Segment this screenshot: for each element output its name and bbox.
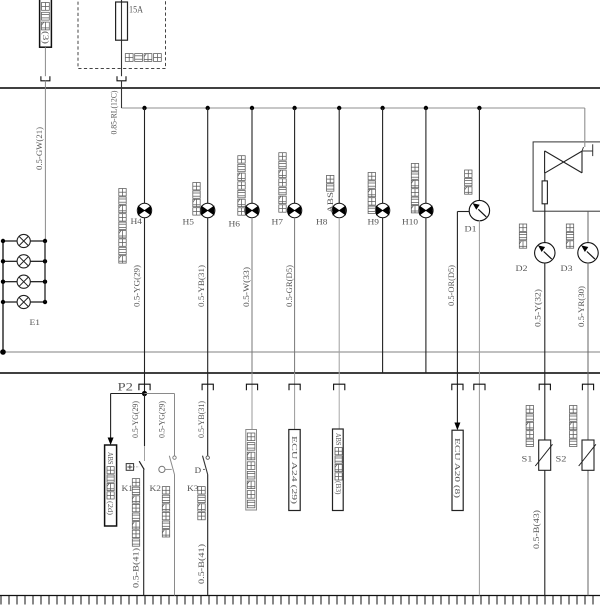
wire: bus into stabilizer box bbox=[582, 108, 585, 151]
svg-text:0.5-GW(21): 0.5-GW(21) bbox=[35, 127, 44, 170]
wire: D1 bottom to terminal strip bbox=[478, 221, 480, 596]
label S2 chinese name (water temp sensor) bbox=[570, 406, 577, 447]
svg-text:ABS: ABS bbox=[334, 433, 342, 446]
wire: K3 to terminal strip bbox=[207, 475, 209, 596]
ABS drive module box (B3) bbox=[333, 429, 344, 511]
svg-text:ECU A20 (8): ECU A20 (8) bbox=[453, 438, 461, 499]
svg-text:H5: H5 bbox=[183, 218, 195, 227]
node: bus junction H6 wire bbox=[250, 106, 254, 110]
node: bus junction H10 wire bbox=[424, 106, 428, 110]
label 0.5-Y(32) bbox=[533, 289, 542, 327]
svg-text:ECU A24 (29): ECU A24 (29) bbox=[290, 436, 298, 505]
label 15A bbox=[129, 5, 143, 15]
svg-text:H6: H6 bbox=[229, 220, 241, 229]
label H10 chinese name (airbag alarm) bbox=[411, 164, 418, 213]
light switch box (3) bbox=[40, 0, 52, 47]
label 0.5-B(43) bbox=[532, 510, 541, 549]
node P2 junction bbox=[142, 391, 147, 396]
svg-text:0.5-B(41): 0.5-B(41) bbox=[132, 548, 141, 588]
wire: H5 down to switch K3 bbox=[207, 218, 209, 456]
wire: H8 down to ABS module bbox=[338, 218, 340, 429]
label S2 bbox=[556, 455, 567, 464]
wire: top boundary bus line bbox=[0, 87, 600, 89]
label K2 chinese name (parking brake switch) bbox=[162, 487, 169, 537]
wire: P2 branch to switch K2 bbox=[145, 394, 175, 456]
wire: K1 to terminal strip bbox=[143, 470, 145, 596]
indicator lamp H9 (seat belt warning) bbox=[375, 203, 389, 217]
generator electronic regulator box bbox=[246, 430, 257, 511]
indicator lamp H5 (oil pressure warning) bbox=[201, 203, 215, 217]
wire: bus to indicator H9 bbox=[382, 108, 384, 203]
node: bus junction H7 wire bbox=[292, 106, 296, 110]
svg-text:H4: H4 bbox=[131, 217, 143, 226]
label D1 chinese name (tachometer) bbox=[465, 170, 472, 194]
svg-text:S2: S2 bbox=[556, 455, 567, 464]
wire: bus to indicator H8 bbox=[338, 108, 340, 203]
ABS drive module box (2d) bbox=[105, 445, 117, 526]
wire: fuse output down to gray bus corner bbox=[121, 81, 123, 108]
label 0.5-YW(33) bbox=[242, 267, 251, 307]
svg-text:K3: K3 bbox=[187, 484, 199, 493]
svg-text:D2: D2 bbox=[516, 264, 528, 273]
svg-text:H10: H10 bbox=[402, 218, 418, 227]
wire: box bottom to water temp gauge D3 bbox=[587, 211, 589, 243]
node: bus junction H8 wire bbox=[337, 106, 341, 110]
svg-text:0.5-B(43): 0.5-B(43) bbox=[532, 510, 541, 549]
wire: lower boundary bus line bbox=[0, 372, 600, 374]
wire: bus to indicator H10 bbox=[425, 108, 427, 203]
resistor inside stabilizer box bbox=[542, 173, 547, 204]
svg-text:0.5-YG(29): 0.5-YG(29) bbox=[131, 401, 140, 438]
svg-text:0.5-YB(31): 0.5-YB(31) bbox=[197, 401, 206, 438]
svg-text:D: D bbox=[195, 465, 202, 475]
lamp cluster E1 (4 illumination lamps) bbox=[0, 234, 47, 354]
label 0.85-RL(12C) bbox=[110, 90, 119, 134]
wire: H7 down to ECU A24 bbox=[294, 218, 296, 430]
label K3 bbox=[187, 484, 199, 493]
node: bus junction H9 wire bbox=[380, 106, 384, 110]
label 0.5-YB(31) lower at K3 bbox=[197, 401, 206, 438]
indicator lamp H10 (airbag warning) bbox=[419, 203, 433, 217]
wire: H4 down to connector P2 bbox=[144, 218, 146, 394]
fuel level sensor S1 (variable resistor) bbox=[535, 440, 552, 470]
tachometer D1 bbox=[469, 200, 489, 220]
label D3 chinese name (water temp gauge) bbox=[566, 224, 573, 248]
instrument cluster voltage stabilizer box bbox=[533, 142, 600, 211]
label K1 bbox=[122, 484, 134, 493]
label 0.5-OR(D5) bbox=[447, 265, 456, 306]
svg-text:D1: D1 bbox=[465, 225, 477, 234]
water temperature gauge D3 bbox=[578, 243, 598, 263]
wire 0.5-GW(21) from light switch to E1 lamps bbox=[44, 81, 46, 241]
svg-text:15A: 15A bbox=[129, 5, 143, 15]
wire: H10 down to lower bus bbox=[425, 218, 427, 373]
wire: H9 down to lower bus bbox=[382, 218, 384, 373]
label 0.5-GR(D5) bbox=[285, 265, 294, 307]
wire: K2 to terminal strip bbox=[174, 475, 176, 596]
ECU A24 (29) box bbox=[289, 430, 300, 511]
svg-text:E1: E1 bbox=[30, 318, 41, 327]
svg-text:0.85-RL(12C): 0.85-RL(12C) bbox=[110, 90, 119, 134]
label K2 bbox=[150, 484, 162, 493]
label H6 chinese name (battery charging indication) bbox=[238, 156, 245, 216]
label S1 bbox=[522, 455, 533, 464]
label P2 connector bbox=[118, 382, 134, 394]
svg-text:(3): (3) bbox=[41, 31, 51, 44]
svg-text:P2: P2 bbox=[118, 382, 134, 394]
wire: light switch output to connector bbox=[44, 47, 46, 76]
wire: P2 to switch K1 bbox=[144, 394, 146, 462]
label D2 chinese name (fuel gauge) bbox=[519, 224, 526, 248]
svg-text:0.5-YG(29): 0.5-YG(29) bbox=[133, 265, 142, 307]
connector brackets below lower bus bbox=[139, 384, 594, 390]
label H8 bbox=[316, 218, 328, 227]
connector bracket at fuse output bbox=[117, 76, 126, 81]
fuel gauge D2 bbox=[535, 243, 555, 263]
label 0.5-YG(29) lower at K1 bbox=[131, 401, 140, 438]
wire: D3 down to water temp sensor S2 bbox=[587, 263, 589, 596]
wire: bus to indicator H7 bbox=[294, 108, 296, 203]
label 0.5-YB(31) upper bbox=[197, 265, 206, 307]
wire: bus to indicator H5 bbox=[207, 108, 209, 203]
label K3 chinese name (oil pressure switch) bbox=[198, 487, 205, 520]
svg-text:S1: S1 bbox=[522, 455, 533, 464]
label 0.5-YR(30) bbox=[577, 286, 586, 327]
label 0.5-GW(21) bbox=[35, 127, 44, 170]
wire through fuse bbox=[121, 0, 123, 76]
label H5 bbox=[183, 218, 195, 227]
label H9 bbox=[368, 218, 380, 227]
label D2 bbox=[516, 264, 528, 273]
svg-text:0.5-YB(31): 0.5-YB(31) bbox=[197, 265, 206, 307]
node: bus junction H4 wire bbox=[142, 106, 146, 110]
svg-text:0.5-W(33): 0.5-W(33) bbox=[242, 267, 251, 307]
svg-text:K2: K2 bbox=[150, 484, 162, 493]
node: bus junction H5 wire bbox=[206, 106, 210, 110]
label H4 chinese name (parking brake, fluid level alarm) bbox=[119, 189, 126, 264]
indicator lamp H7 (engine fault indicator) bbox=[287, 203, 301, 217]
svg-text:0.5-GR(D5): 0.5-GR(D5) bbox=[285, 265, 294, 307]
wire: bus to indicator H6 bbox=[251, 108, 253, 203]
label H5 chinese name (oil pressure alarm) bbox=[193, 183, 200, 216]
label H10 bbox=[402, 218, 418, 227]
label 0.5-B(41) at K3 bbox=[197, 544, 206, 584]
svg-text:0.5-B(41): 0.5-B(41) bbox=[197, 544, 206, 584]
svg-text:H9: H9 bbox=[368, 218, 380, 227]
wire: P2 branch to ABS drive module (2d) bbox=[111, 394, 145, 438]
svg-text:0.5-YG(29): 0.5-YG(29) bbox=[158, 401, 167, 438]
voltage stabilizer symbol (crossed bowtie) bbox=[545, 151, 582, 173]
label fuse box name bbox=[125, 54, 161, 62]
label H9 chinese name (seat belt alarm) bbox=[368, 173, 375, 214]
label S1 chinese name (fuel sensor) bbox=[526, 406, 533, 447]
label D3 bbox=[561, 264, 573, 273]
stabilizer terminal bar bbox=[582, 144, 593, 156]
label 0.5-YG(29) lower at K2 bbox=[158, 401, 167, 438]
fuse box dashed outline bbox=[78, 0, 166, 69]
node: bus junction D1 wire bbox=[477, 106, 481, 110]
wire: H6 down to regulator box bbox=[251, 218, 253, 430]
wire: D1 signal output to ECU A20 bbox=[457, 212, 469, 423]
K1 float actuator symbol bbox=[126, 464, 139, 471]
label H4 bbox=[131, 217, 143, 226]
svg-text:ABS: ABS bbox=[106, 452, 114, 465]
indicator lamp H6 (battery charge indicator) bbox=[245, 203, 259, 217]
label H8 chinese name (ABS alarm) bbox=[325, 175, 335, 213]
svg-text:0.5-YR(30): 0.5-YR(30) bbox=[577, 286, 586, 327]
indicator lamp H4 (parking brake / fluid level warning) bbox=[137, 203, 151, 217]
indicator lamp H8 (ABS warning) bbox=[332, 203, 346, 217]
svg-text:(B3): (B3) bbox=[334, 481, 342, 495]
label E1 bbox=[30, 318, 41, 327]
switch K1 blade (brake fluid level switch) bbox=[139, 461, 144, 469]
label H7 chinese name (engine fault indication) bbox=[279, 153, 286, 213]
connector bracket at light switch wire bbox=[41, 76, 50, 81]
svg-text:D3: D3 bbox=[561, 264, 573, 273]
wire: bus to tachometer D1 bbox=[478, 108, 480, 201]
label H6 bbox=[229, 220, 241, 229]
svg-text:K1: K1 bbox=[122, 484, 134, 493]
arrow into ABS drive module (2d) bbox=[108, 438, 114, 446]
svg-text:(2d): (2d) bbox=[106, 501, 114, 516]
label D1 bbox=[465, 225, 477, 234]
switch K3 (oil pressure switch) bbox=[195, 456, 210, 475]
svg-text:0.5-Y(32): 0.5-Y(32) bbox=[533, 289, 542, 327]
switch K2 (parking brake switch) bbox=[159, 456, 176, 475]
label H7 bbox=[272, 218, 284, 227]
wire: D2 down to fuel sensor S1 bbox=[544, 263, 546, 596]
fuse F1 15A bbox=[116, 2, 128, 40]
wire: bus to indicator H4 bbox=[144, 108, 146, 203]
svg-text:H8: H8 bbox=[316, 218, 328, 227]
label 0.5-B(41) and K1 chinese name (brake fluid level alarm switch) bbox=[132, 479, 141, 588]
svg-text:0.5-OR(D5): 0.5-OR(D5) bbox=[447, 265, 456, 306]
svg-text:ABS: ABS bbox=[325, 192, 335, 213]
water temperature sensor S2 (variable resistor) bbox=[579, 440, 596, 470]
label 0.5-YG(29) upper bbox=[133, 265, 142, 307]
arrow into ECU A20 bbox=[454, 423, 460, 431]
terminal strip (bottom edge pin row) bbox=[0, 596, 600, 605]
ECU A20 (8) box bbox=[452, 430, 463, 510]
wire: stabilizer output to fuel gauge D2 bbox=[544, 204, 546, 243]
wire: gray distribution bus (0.85-RL) from fuse to instrument cluster bbox=[122, 107, 585, 109]
wire: ground bus line (gray, mid page) bbox=[0, 351, 600, 353]
svg-text:H7: H7 bbox=[272, 218, 284, 227]
